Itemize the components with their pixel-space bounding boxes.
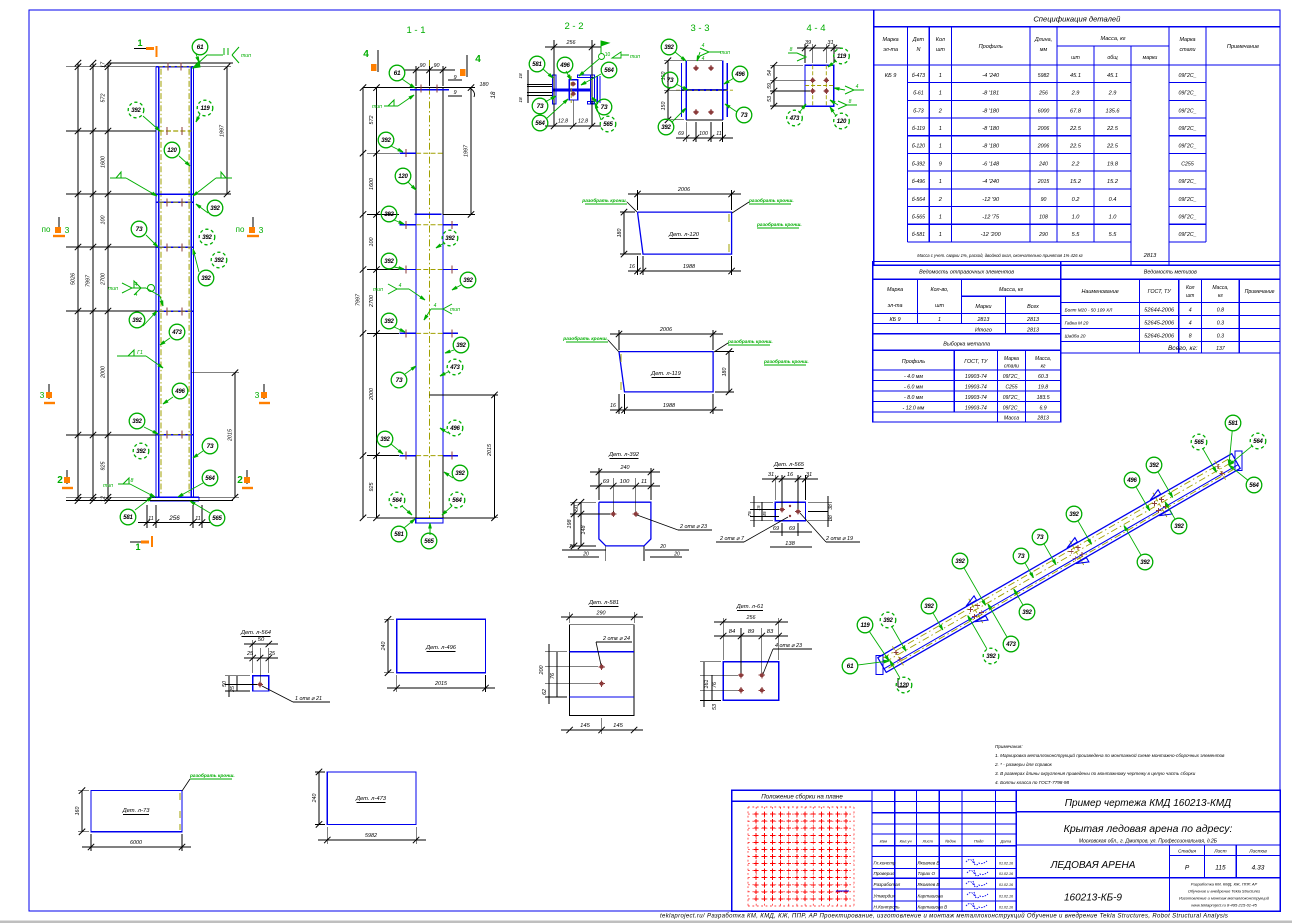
svg-text:0.8: 0.8 (1217, 308, 1224, 314)
svg-text:N: N (916, 47, 920, 53)
svg-text:0.2: 0.2 (1072, 197, 1081, 203)
svg-text:148: 148 (581, 526, 587, 535)
svg-text:1988: 1988 (663, 403, 676, 409)
welding position box (732, 800, 872, 802)
svg-text:61: 61 (847, 663, 854, 670)
svg-text:2015: 2015 (434, 681, 448, 687)
svg-text:1: 1 (939, 126, 942, 132)
svg-text:б-473: б-473 (912, 73, 925, 79)
svg-text:564: 564 (452, 498, 462, 504)
svg-text:145: 145 (580, 723, 590, 729)
svg-text:разобрать кронш.: разобрать кронш. (562, 335, 608, 342)
svg-text:4: 4 (1189, 308, 1192, 314)
svg-text:Н.Контроль: Н.Контроль (874, 905, 901, 910)
svg-text:52646-2006: 52646-2006 (1144, 334, 1175, 340)
base 1-1 (377, 517, 495, 519)
svg-text:9: 9 (453, 90, 456, 96)
svg-text:-12 '200: -12 '200 (981, 232, 1002, 238)
svg-text:01.02.16: 01.02.16 (999, 906, 1013, 910)
svg-text:б-73: б-73 (913, 108, 924, 114)
column splice and stiffener lines (159, 130, 192, 132)
beam body (878, 454, 1232, 658)
2-2 splice plates (569, 80, 577, 100)
svg-text:1997: 1997 (464, 144, 470, 157)
svg-text:8: 8 (849, 99, 852, 105)
svg-text:392: 392 (1149, 463, 1159, 469)
svg-text:9: 9 (939, 161, 942, 167)
svg-text:Карташова В: Карташова В (918, 905, 948, 910)
svg-text:5026: 5026 (71, 273, 77, 285)
svg-text:11: 11 (641, 479, 647, 485)
svg-text:разобрать кронш.: разобрать кронш. (763, 358, 809, 365)
svg-text:01.02.16: 01.02.16 (999, 883, 1013, 887)
svg-text:496: 496 (449, 426, 460, 432)
svg-text:Яковлев В: Яковлев В (917, 861, 940, 866)
svg-text:09Г2С_: 09Г2С_ (1178, 232, 1196, 238)
balloons left view (196, 54, 199, 62)
svg-text:б-581: б-581 (912, 232, 925, 238)
svg-text:120: 120 (837, 119, 847, 125)
svg-text:15.2: 15.2 (1070, 179, 1082, 185)
svg-text:разобрать кронш.: разобрать кронш. (756, 221, 802, 228)
svg-text:31: 31 (806, 472, 812, 478)
svg-text:200: 200 (539, 666, 545, 676)
svg-text:0.3: 0.3 (1217, 334, 1224, 340)
svg-text:4: 4 (434, 303, 437, 309)
svg-text:392: 392 (661, 125, 671, 131)
svg-text:Пример чертежа КМД 160213-КМД: Пример чертежа КМД 160213-КМД (1065, 798, 1231, 809)
svg-text:3: 3 (259, 225, 264, 235)
svg-text:45.1: 45.1 (1070, 73, 1081, 79)
svg-text:473: 473 (171, 330, 182, 336)
svg-text:5982: 5982 (1038, 73, 1050, 79)
svg-text:-6 '148: -6 '148 (982, 161, 1000, 167)
svg-text:4: 4 (1189, 321, 1192, 327)
svg-text:Лист: Лист (922, 839, 934, 844)
svg-text:73: 73 (741, 112, 748, 119)
svg-text:Кол: Кол (1186, 285, 1195, 291)
weld tip flags 1-1 (384, 105, 398, 107)
svg-text:69: 69 (678, 131, 684, 137)
svg-text:3: 3 (40, 390, 45, 400)
svg-text:09Г2С_: 09Г2С_ (1178, 126, 1196, 132)
svg-text:25: 25 (268, 651, 276, 657)
svg-text:шт: шт (1071, 55, 1080, 61)
svg-text:17: 17 (101, 61, 107, 68)
svg-text:62: 62 (542, 689, 548, 695)
svg-text:Масса, кг: Масса, кг (999, 287, 1023, 293)
svg-text:392: 392 (986, 654, 996, 660)
svg-text:2: 2 (237, 475, 243, 486)
svg-text:Дет: Дет (912, 37, 925, 43)
table Vyborka metalla (873, 334, 1061, 422)
svg-text:4 отв ⌀ 23: 4 отв ⌀ 23 (775, 643, 802, 649)
svg-text:09Г2С_: 09Г2С_ (1178, 108, 1196, 114)
column flange centerlines (160, 69, 162, 496)
svg-text:120: 120 (899, 683, 909, 689)
svg-text:925: 925 (101, 461, 107, 471)
svg-text:135.6: 135.6 (1106, 108, 1121, 114)
svg-text:16: 16 (787, 472, 794, 478)
web outline (415, 88, 417, 518)
svg-text:115: 115 (1215, 865, 1226, 872)
3-3 dims bottom 69 100 11 (685, 122, 687, 142)
svg-text:по: по (42, 225, 51, 234)
svg-text:ЛЕДОВАЯ АРЕНА: ЛЕДОВАЯ АРЕНА (1050, 860, 1136, 871)
svg-text:Дет. л-564: Дет. л-564 (240, 630, 271, 636)
svg-text:Масса: Масса (1004, 416, 1019, 422)
svg-text:11: 11 (148, 516, 153, 522)
svg-text:-8 '181: -8 '181 (982, 91, 999, 97)
svg-text:161: 161 (704, 680, 710, 689)
svg-text:1: 1 (939, 232, 942, 238)
svg-text:стали: стали (1179, 47, 1195, 53)
svg-text:392: 392 (456, 343, 466, 349)
svg-text:4. Болты класса по ГОСТ-7798-9: 4. Болты класса по ГОСТ-7798-98 (995, 780, 1069, 785)
svg-text:teklaproject.ru/ Разработка: teklaproject.ru/ Разработка КМ, КМД, КЖ,… (660, 913, 1228, 920)
svg-text:б-565: б-565 (912, 215, 925, 221)
splice line 214 1-1 (415, 213, 442, 215)
svg-text:Дет. л-473: Дет. л-473 (355, 796, 387, 802)
svg-text:09Г2С_: 09Г2С_ (1178, 215, 1196, 221)
svg-text:8: 8 (131, 478, 134, 484)
svg-text:Марка: Марка (1179, 37, 1195, 43)
svg-text:1: 1 (939, 144, 942, 150)
column base plate (150, 496, 199, 498)
svg-text:8: 8 (1189, 334, 1192, 340)
svg-text:тип: тип (372, 104, 382, 110)
svg-text:290: 290 (1038, 232, 1048, 238)
svg-text:2.2: 2.2 (1071, 161, 1081, 167)
svg-text:392: 392 (664, 45, 674, 51)
svg-text:КБ 9: КБ 9 (885, 73, 897, 79)
svg-text:392: 392 (384, 259, 394, 265)
svg-text:5.5: 5.5 (1109, 232, 1118, 238)
svg-text:1 отв ⌀ 21: 1 отв ⌀ 21 (295, 696, 322, 702)
svg-text:Ведомость отправочных элементо: Ведомость отправочных элементов (919, 270, 1014, 276)
svg-text:22.5: 22.5 (1069, 126, 1082, 132)
svg-text:Марка: Марка (1004, 356, 1019, 362)
svg-text:№док: №док (945, 839, 957, 844)
svg-text:19903-74: 19903-74 (965, 406, 987, 412)
svg-text:Масса, кг: Масса, кг (1100, 36, 1125, 42)
svg-text:09Г2С_: 09Г2С_ (1003, 374, 1021, 380)
svg-text:392: 392 (463, 278, 473, 284)
svg-text:392: 392 (384, 212, 394, 218)
svg-text:01.02.16: 01.02.16 (999, 872, 1013, 876)
4-4 balloons (828, 61, 836, 67)
svg-text:2. * - размеры для справок: 2. * - размеры для справок (994, 762, 1053, 767)
svg-text:392: 392 (1022, 610, 1032, 616)
svg-text:2813: 2813 (1026, 328, 1039, 334)
svg-text:09Г2С_: 09Г2С_ (1003, 395, 1021, 401)
svg-text:Марка: Марка (887, 287, 903, 293)
svg-text:эл-та: эл-та (883, 47, 898, 53)
svg-text:564: 564 (205, 476, 215, 482)
svg-text:- 6.0 мм: - 6.0 мм (904, 385, 923, 391)
svg-text:392: 392 (955, 559, 965, 565)
svg-text:-4 '240: -4 '240 (982, 179, 1000, 185)
svg-text:392: 392 (210, 206, 220, 212)
svg-text:тип: тип (720, 50, 730, 56)
svg-text:572: 572 (369, 116, 375, 125)
svg-text:392: 392 (136, 449, 146, 455)
svg-text:-8 '180: -8 '180 (982, 144, 1000, 150)
svg-text:Дет. л-392: Дет. л-392 (608, 452, 640, 458)
svg-text:1. Маркировка металлоконструкц: 1. Маркировка металлоконструкций произве… (995, 752, 1225, 758)
svg-text:73: 73 (136, 226, 143, 233)
svg-text:Листов: Листов (1248, 849, 1267, 855)
svg-text:19903-74: 19903-74 (965, 385, 987, 391)
svg-text:925: 925 (369, 482, 375, 492)
svg-text:стали: стали (1004, 364, 1019, 370)
svg-text:Проверил: Проверил (874, 871, 895, 876)
beam centerlines olive (883, 458, 1230, 658)
svg-text:- 8.0 мм: - 8.0 мм (904, 395, 923, 401)
svg-text:Кол.уч: Кол.уч (900, 839, 912, 844)
svg-text:564: 564 (392, 498, 402, 504)
svg-text:100: 100 (101, 216, 107, 225)
svg-text:Марка: Марка (883, 37, 899, 43)
svg-text:392: 392 (1069, 512, 1079, 518)
svg-text:73: 73 (396, 377, 403, 384)
svg-text:392: 392 (202, 235, 212, 241)
right bracket 1997 (193, 66, 231, 68)
svg-text:392: 392 (883, 618, 893, 624)
2-2 web (553, 89, 591, 92)
svg-text:240: 240 (620, 465, 630, 471)
svg-text:- 12.0 мм: - 12.0 мм (903, 406, 925, 412)
svg-text:180: 180 (480, 82, 489, 88)
svg-text:Дата: Дата (1000, 839, 1012, 844)
2-2 dim 256 top (553, 40, 555, 126)
svg-text:59: 59 (767, 83, 773, 89)
4-4 top dims (804, 44, 806, 63)
svg-text:31: 31 (827, 40, 833, 46)
svg-text:73: 73 (601, 104, 608, 111)
svg-text:б-496: б-496 (912, 179, 925, 185)
weld symbol G1 (117, 355, 146, 357)
3-3 dims left 150 150 (664, 60, 684, 62)
svg-text:Наименование: Наименование (1081, 289, 1118, 295)
svg-text:б-564: б-564 (912, 197, 925, 203)
table Vedomost metizov (1061, 262, 1280, 354)
svg-text:256: 256 (746, 615, 756, 621)
svg-text:581: 581 (1228, 421, 1238, 427)
svg-text:100: 100 (369, 238, 375, 247)
svg-text:473: 473 (449, 365, 460, 371)
svg-text:496: 496 (1126, 478, 1137, 484)
svg-text:Кол-во,: Кол-во, (930, 287, 948, 293)
svg-text:6000: 6000 (130, 840, 142, 846)
svg-text:1997: 1997 (220, 124, 226, 137)
svg-text:09Г2С_: 09Г2С_ (1178, 144, 1196, 150)
dim 90 90 top (415, 66, 417, 86)
svg-text:Дет. л-565: Дет. л-565 (773, 462, 805, 468)
svg-text:тип: тип (373, 287, 383, 293)
svg-text:кг: кг (1218, 293, 1223, 299)
svg-text:Изготовление и монтаж металлок: Изготовление и монтаж металлоконструкций (1179, 896, 1270, 901)
svg-text:2 отв ⌀ 24: 2 отв ⌀ 24 (602, 636, 630, 642)
svg-text:7997: 7997 (86, 274, 92, 287)
svg-text:2 отв ⌀ 23: 2 отв ⌀ 23 (679, 524, 707, 530)
svg-text:2.9: 2.9 (1108, 91, 1117, 97)
svg-text:120: 120 (398, 174, 408, 180)
svg-text:1988: 1988 (683, 264, 696, 270)
svg-text:100: 100 (699, 131, 708, 137)
svg-text:2700: 2700 (369, 295, 375, 308)
svg-text:Г1: Г1 (137, 350, 143, 356)
svg-text:15: 15 (756, 505, 761, 511)
right bracket 2015 (191, 372, 239, 374)
svg-text:-12 '75: -12 '75 (982, 215, 1000, 221)
svg-text:Итого: Итого (975, 328, 992, 334)
svg-text:137: 137 (1216, 346, 1226, 352)
svg-text:09Г2С_: 09Г2С_ (1178, 179, 1196, 185)
svg-text:18: 18 (518, 97, 524, 103)
svg-text:39: 39 (805, 40, 811, 46)
svg-text:4.33: 4.33 (1252, 865, 1265, 872)
svg-text:61: 61 (197, 44, 204, 51)
drawing title section (1016, 811, 1280, 813)
svg-text:108: 108 (1039, 215, 1048, 221)
svg-text:0.3: 0.3 (1217, 321, 1224, 327)
svg-text:119: 119 (201, 106, 211, 112)
2-2 side plates 564 (596, 76, 598, 103)
svg-text:2015: 2015 (1037, 179, 1050, 185)
svg-text:12.8: 12.8 (578, 119, 588, 125)
svg-text:392: 392 (381, 138, 391, 144)
svg-text:Гайка М 20: Гайка М 20 (1065, 320, 1089, 326)
svg-text:38: 38 (828, 504, 834, 510)
svg-text:11: 11 (716, 131, 721, 137)
detail plate b-496 (397, 619, 486, 672)
svg-text:15.2: 15.2 (1107, 179, 1119, 185)
svg-text:76: 76 (550, 673, 556, 679)
svg-text:2: 2 (57, 475, 63, 486)
svg-text:Марки: Марки (975, 304, 991, 310)
svg-text:С255: С255 (1181, 161, 1194, 167)
2-2 balloons (543, 69, 553, 78)
svg-text:4: 4 (702, 43, 705, 49)
svg-text:19903-74: 19903-74 (965, 374, 987, 380)
svg-text:496: 496 (734, 72, 745, 78)
svg-text:12.8: 12.8 (558, 119, 568, 125)
axis origin mark (898, 686, 907, 688)
svg-text:Всего, кг:: Всего, кг: (1168, 345, 1198, 352)
3-3 bolts (693, 67, 699, 69)
svg-text:КБ 9: КБ 9 (889, 317, 900, 323)
svg-text:392: 392 (384, 319, 394, 325)
svg-text:45.1: 45.1 (1107, 73, 1118, 79)
svg-text:Всех: Всех (1027, 304, 1039, 310)
svg-text:19.8: 19.8 (1107, 161, 1119, 167)
svg-text:Спецификация деталей: Спецификация деталей (1033, 15, 1121, 24)
3-3 balloons (675, 52, 686, 61)
svg-text:25: 25 (246, 651, 254, 657)
svg-text:22.5: 22.5 (1106, 144, 1119, 150)
svg-text:шт: шт (935, 303, 944, 309)
svg-text:Изм: Изм (880, 839, 888, 844)
svg-text:496: 496 (559, 63, 570, 69)
svg-text:50: 50 (222, 681, 228, 687)
svg-text:53: 53 (767, 96, 773, 102)
svg-text:кг: кг (1041, 364, 1046, 370)
svg-text:б-120: б-120 (912, 144, 925, 150)
svg-text:392: 392 (1174, 524, 1184, 530)
weld symbol tip top right (193, 55, 223, 68)
svg-text:73: 73 (537, 103, 544, 110)
svg-text:392: 392 (132, 318, 142, 324)
svg-text:20: 20 (659, 544, 666, 550)
svg-text:шт: шт (936, 47, 945, 53)
svg-text:-4 '240: -4 '240 (982, 73, 1000, 79)
svg-text:100: 100 (620, 479, 630, 485)
balloons 1-1 (402, 79, 415, 88)
svg-text:тип: тип (241, 53, 251, 59)
svg-text:С255: С255 (1006, 385, 1018, 391)
top cap 1-1 (363, 87, 470, 89)
red assembly grid (747, 807, 749, 906)
svg-text:1.0: 1.0 (1072, 215, 1081, 221)
svg-text:ГОСТ, ТУ: ГОСТ, ТУ (964, 359, 988, 365)
svg-text:565: 565 (603, 122, 613, 128)
svg-text:180: 180 (722, 368, 728, 377)
svg-text:3: 3 (65, 225, 70, 235)
svg-text:564: 564 (604, 68, 614, 74)
beam stiffener clusters (969, 599, 983, 623)
svg-text:эл-та: эл-та (888, 303, 903, 309)
left dimension chain lines (77, 63, 79, 501)
svg-text:565: 565 (1194, 440, 1204, 446)
svg-text:256: 256 (566, 40, 576, 46)
svg-text:90: 90 (434, 63, 440, 69)
svg-text:Тарах О: Тарах О (918, 871, 936, 876)
svg-text:разобрать кронш.: разобрать кронш. (581, 197, 627, 204)
svg-text:61: 61 (394, 70, 401, 77)
2-2 flanges (552, 75, 556, 104)
svg-text:Дет. л-61: Дет. л-61 (736, 604, 764, 610)
svg-text:Дет. л-496: Дет. л-496 (425, 645, 457, 651)
svg-text:Масса с учет. сварки 1%, расхо: Масса с учет. сварки 1%, расход, двойной… (917, 253, 1083, 258)
svg-text:290: 290 (596, 611, 606, 617)
svg-text:45: 45 (762, 511, 767, 517)
svg-text:240: 240 (1038, 161, 1048, 167)
svg-text:4: 4 (702, 56, 705, 62)
svg-text:75: 75 (747, 511, 753, 517)
svg-text:90: 90 (1041, 197, 1047, 203)
3-3 weld flag 4-4 (700, 48, 709, 56)
svg-text:392: 392 (131, 108, 141, 114)
right bracket 1997 1-1 (443, 87, 475, 89)
svg-text:392: 392 (445, 236, 455, 242)
detail plate b-419 (619, 352, 713, 392)
svg-text:Дет. л-119: Дет. л-119 (650, 371, 681, 377)
svg-text:73: 73 (667, 77, 674, 84)
svg-text:581: 581 (394, 532, 404, 538)
svg-text:2006: 2006 (1037, 144, 1050, 150)
svg-text:2000: 2000 (101, 366, 107, 379)
right bracket 2015 1-1 (430, 394, 499, 396)
svg-text:1: 1 (939, 73, 942, 79)
svg-text:69: 69 (789, 526, 795, 532)
svg-text:2000: 2000 (369, 388, 375, 401)
svg-text:09Г2С_: 09Г2С_ (1178, 91, 1196, 97)
svg-text:180: 180 (617, 229, 623, 238)
svg-text:шт: шт (1186, 293, 1194, 299)
svg-text:9: 9 (453, 75, 456, 81)
4-4 plate (805, 65, 834, 106)
